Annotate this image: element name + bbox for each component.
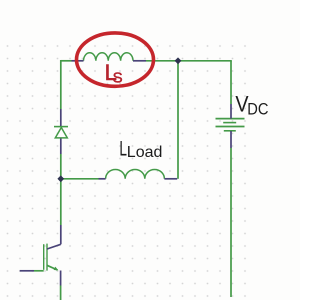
svg-text:Load: Load (127, 144, 163, 161)
svg-text:DC: DC (247, 101, 268, 119)
svg-text:S: S (113, 69, 123, 86)
